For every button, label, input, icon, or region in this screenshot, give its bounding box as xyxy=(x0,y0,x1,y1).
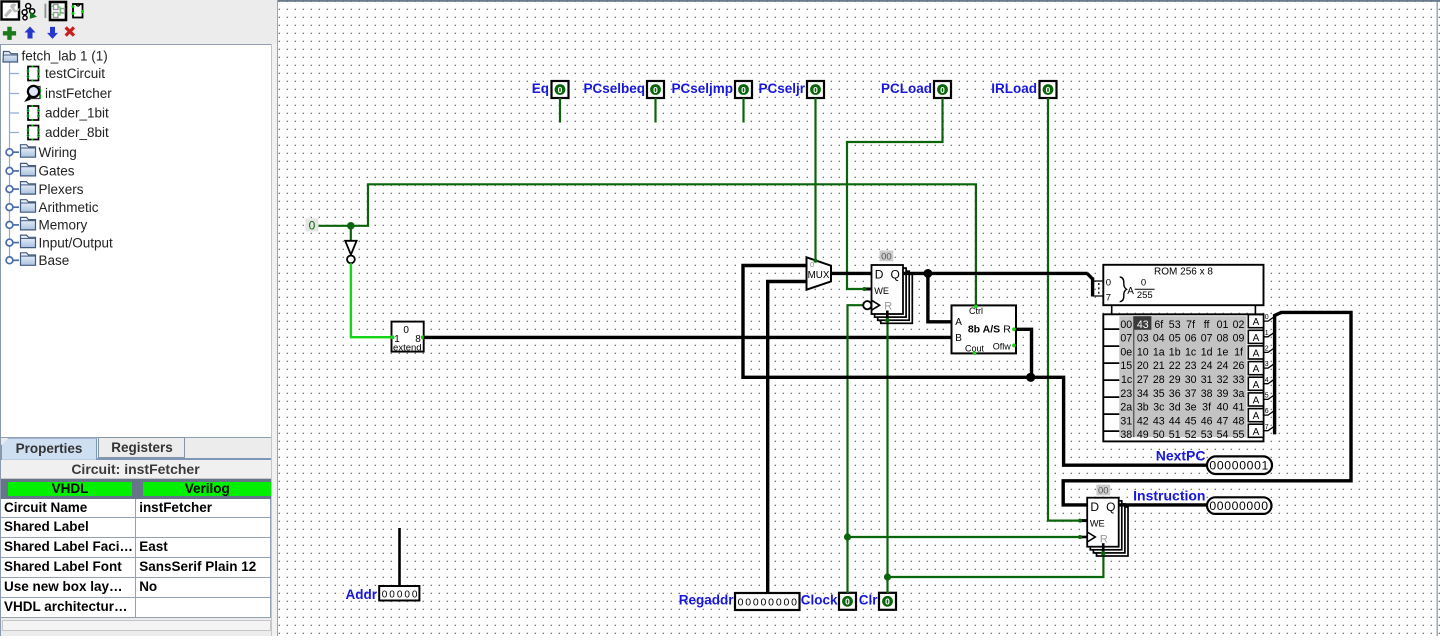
svg-text:1: 1 xyxy=(1265,330,1269,337)
svg-text:0: 0 xyxy=(741,85,746,95)
wire ROM data bus to IR D xyxy=(1063,312,1351,505)
register U3 (PC) xyxy=(862,265,912,323)
svg-text:Instruction: Instruction xyxy=(1133,488,1205,504)
wire PCLoad to register WE xyxy=(847,98,943,289)
svg-text:38: 38 xyxy=(1201,388,1213,400)
svg-text:43: 43 xyxy=(1153,415,1165,427)
svg-text:IRLoad: IRLoad xyxy=(991,81,1037,96)
tool: simulate xyxy=(22,4,37,20)
svg-text:1f: 1f xyxy=(1234,346,1243,358)
constant 0 xyxy=(306,219,319,233)
svg-text:0: 0 xyxy=(404,589,410,600)
wire PCseljmp stub xyxy=(742,98,744,123)
svg-text:PCselbeq: PCselbeq xyxy=(583,81,645,96)
svg-text:A: A xyxy=(1253,411,1260,422)
svg-text:3d: 3d xyxy=(1169,402,1181,414)
svg-text:0: 0 xyxy=(1254,499,1261,513)
root folder xyxy=(3,52,18,63)
ROM U5 256x8 xyxy=(1103,265,1269,442)
svg-text:03: 03 xyxy=(1137,333,1149,345)
svg-text:A: A xyxy=(1253,317,1260,328)
svg-text:6: 6 xyxy=(1265,408,1269,415)
svg-text:Addr: Addr xyxy=(346,587,378,602)
input pin Clock xyxy=(801,593,856,610)
svg-text:0: 0 xyxy=(1141,278,1146,289)
svg-text:WE: WE xyxy=(874,286,889,296)
svg-text:30: 30 xyxy=(1185,374,1197,386)
svg-text:Oflw: Oflw xyxy=(993,342,1012,352)
svg-text:07: 07 xyxy=(1120,333,1132,345)
svg-text:0: 0 xyxy=(738,597,744,609)
svg-text:32: 32 xyxy=(1217,374,1229,386)
svg-text:0e: 0e xyxy=(1120,346,1132,358)
node PC Q junction xyxy=(924,269,933,278)
svg-text:40: 40 xyxy=(1217,402,1229,414)
svg-text:0: 0 xyxy=(791,597,797,609)
svg-text:3: 3 xyxy=(1265,361,1269,368)
svg-text:00: 00 xyxy=(881,252,892,263)
wire NOT output to extender xyxy=(351,263,392,337)
svg-text:0: 0 xyxy=(382,589,388,600)
wire PCselbeq stub xyxy=(654,98,656,123)
svg-text:0: 0 xyxy=(1247,459,1254,473)
svg-text:31: 31 xyxy=(1120,415,1132,427)
svg-text:0: 0 xyxy=(745,597,751,609)
svg-text:PCLoad: PCLoad xyxy=(881,81,932,96)
node Clock junction xyxy=(844,533,851,540)
svg-text:Q: Q xyxy=(890,267,899,281)
input pin IRLoad xyxy=(991,81,1056,98)
svg-text:09: 09 xyxy=(1233,333,1245,345)
node constant junction xyxy=(347,222,355,230)
wire Eq stub xyxy=(559,98,561,123)
svg-text:28: 28 xyxy=(1153,374,1165,386)
svg-text:51: 51 xyxy=(1169,429,1181,441)
svg-text:A: A xyxy=(1253,396,1260,407)
svg-text:A: A xyxy=(955,317,962,328)
svg-text:49: 49 xyxy=(1137,429,1149,441)
svg-text:3a: 3a xyxy=(1233,388,1245,400)
input pin Eq xyxy=(532,81,569,98)
svg-text:0: 0 xyxy=(1232,459,1239,473)
svg-text:A: A xyxy=(1253,333,1260,344)
output pin NextPC xyxy=(1156,448,1272,474)
node adder R junction xyxy=(1026,373,1035,382)
svg-text:36: 36 xyxy=(1169,388,1181,400)
svg-text:0: 0 xyxy=(1246,499,1253,513)
svg-text:0: 0 xyxy=(1224,459,1231,473)
splitter S1 (PC bus to ROM address) xyxy=(1087,273,1103,296)
svg-text:PCseljr: PCseljr xyxy=(758,81,805,96)
svg-text:3b: 3b xyxy=(1137,402,1149,414)
svg-text:extend: extend xyxy=(393,342,422,353)
wire IRLoad to IR WE xyxy=(1048,98,1087,521)
svg-text:3c: 3c xyxy=(1153,402,1165,414)
svg-text:Plexers: Plexers xyxy=(39,182,84,197)
svg-text:Wiring: Wiring xyxy=(39,145,77,160)
svg-text:1c: 1c xyxy=(1121,374,1133,386)
svg-text:0: 0 xyxy=(653,85,658,95)
svg-text:Memory: Memory xyxy=(39,218,88,233)
svg-text:31: 31 xyxy=(1201,374,1213,386)
svg-text:1d: 1d xyxy=(1201,346,1213,358)
input pin Addr xyxy=(346,586,420,602)
wire extender output to adder B xyxy=(424,336,952,339)
svg-text:39: 39 xyxy=(1217,388,1229,400)
svg-text:1a: 1a xyxy=(1153,346,1165,358)
svg-text:0: 0 xyxy=(885,597,890,607)
register U6 (IR) value label xyxy=(1096,485,1110,497)
svg-text:33: 33 xyxy=(1233,374,1245,386)
svg-text:0: 0 xyxy=(558,85,563,95)
svg-text:38: 38 xyxy=(1120,429,1132,441)
svg-text:Clr: Clr xyxy=(859,593,879,608)
svg-text:0: 0 xyxy=(940,85,945,95)
svg-text:26: 26 xyxy=(1233,360,1245,372)
guide lines xyxy=(9,62,11,260)
svg-text:7: 7 xyxy=(1106,292,1111,303)
svg-text:50: 50 xyxy=(1153,429,1165,441)
svg-text:0: 0 xyxy=(1265,314,1269,321)
wire Regaddr to MUX input 1 xyxy=(768,282,807,594)
svg-text:34: 34 xyxy=(1137,388,1149,400)
svg-text:06: 06 xyxy=(1185,333,1197,345)
svg-text:0: 0 xyxy=(1254,459,1261,473)
svg-text:7: 7 xyxy=(1265,424,1269,431)
svg-text:15: 15 xyxy=(1120,360,1132,372)
input pin PCselbeq xyxy=(583,81,664,98)
properties tabs xyxy=(98,437,185,459)
svg-text:0: 0 xyxy=(1239,499,1246,513)
svg-text:A: A xyxy=(1127,286,1134,297)
wire Clock branch to IR clock xyxy=(848,536,1088,538)
svg-text:Input/Output: Input/Output xyxy=(39,235,114,250)
output pin Instruction xyxy=(1133,488,1271,514)
svg-text:0: 0 xyxy=(389,589,395,600)
svg-text:44: 44 xyxy=(1169,415,1181,427)
svg-text:ROM 256 x 8: ROM 256 x 8 xyxy=(1154,267,1213,278)
svg-text:0: 0 xyxy=(1209,459,1216,473)
svg-text:1c: 1c xyxy=(1185,346,1197,358)
svg-text:Clock: Clock xyxy=(801,593,838,608)
svg-text:23: 23 xyxy=(1120,388,1132,400)
wire MUX output to PC register D xyxy=(831,272,872,275)
svg-text:6f: 6f xyxy=(1154,319,1163,331)
svg-text:0: 0 xyxy=(753,597,759,609)
multiplexer MUX1 xyxy=(807,257,832,289)
svg-text:29: 29 xyxy=(1169,374,1181,386)
adder U4 (8b A/S) xyxy=(952,305,1017,356)
input pin Clr xyxy=(859,593,896,610)
svg-text:0: 0 xyxy=(776,597,782,609)
svg-text:1b: 1b xyxy=(1169,346,1181,358)
svg-text:0: 0 xyxy=(309,219,316,233)
svg-text:NextPC: NextPC xyxy=(1156,448,1206,464)
wire Addr stub xyxy=(398,528,401,586)
svg-text:ff: ff xyxy=(1204,319,1210,331)
svg-text:Gates: Gates xyxy=(39,164,75,179)
svg-text:Regaddr: Regaddr xyxy=(679,593,735,608)
register U3 (PC) value label xyxy=(880,251,894,263)
svg-text:0: 0 xyxy=(1046,85,1051,95)
svg-text:24: 24 xyxy=(1201,360,1213,372)
wire PC Q to ROM splitter xyxy=(903,272,1088,275)
svg-text:0: 0 xyxy=(412,589,418,600)
svg-text:47: 47 xyxy=(1217,415,1229,427)
svg-text:05: 05 xyxy=(1169,333,1181,345)
svg-text:8b A/S: 8b A/S xyxy=(968,323,1000,335)
svg-text:54: 54 xyxy=(1217,429,1229,441)
svg-text:2: 2 xyxy=(1265,346,1269,353)
svg-text:D: D xyxy=(875,267,884,281)
svg-text:5: 5 xyxy=(1265,393,1269,400)
svg-text:1e: 1e xyxy=(1217,346,1229,358)
wire Clr net xyxy=(886,318,888,593)
svg-text:1: 1 xyxy=(1262,459,1269,473)
wire adder R to NextPC xyxy=(1016,329,1207,465)
svg-text:0: 0 xyxy=(1232,499,1239,513)
svg-text:0: 0 xyxy=(1106,277,1111,288)
svg-text:Arithmetic: Arithmetic xyxy=(39,200,99,215)
svg-text:MUX: MUX xyxy=(808,270,830,281)
svg-text:0: 0 xyxy=(768,597,774,609)
wire Clr branch to IR reset xyxy=(888,551,1104,577)
svg-text:00: 00 xyxy=(1120,319,1132,331)
svg-text:37: 37 xyxy=(1185,388,1197,400)
svg-text:testCircuit: testCircuit xyxy=(45,66,105,81)
svg-text:fetch_lab 1 (1): fetch_lab 1 (1) xyxy=(22,49,108,64)
svg-text:45: 45 xyxy=(1185,415,1197,427)
wire Q junction to adder A xyxy=(928,273,952,321)
tool: hierarchy (selected box) xyxy=(50,2,66,20)
svg-text:A: A xyxy=(1253,349,1260,360)
wire IR Q to Instruction pin xyxy=(1119,503,1207,506)
splitter S2 (ROM data to bus) xyxy=(1264,312,1282,434)
svg-text:08: 08 xyxy=(1217,333,1229,345)
svg-text:B: B xyxy=(955,333,962,344)
inverter G1 xyxy=(345,241,356,263)
svg-text:22: 22 xyxy=(1169,360,1181,372)
svg-text:A: A xyxy=(1253,364,1260,375)
svg-text:R: R xyxy=(1003,323,1011,335)
svg-text:Eq: Eq xyxy=(532,81,549,96)
svg-text:0: 0 xyxy=(845,597,850,607)
row2: up arrow xyxy=(25,27,36,39)
svg-text:PCseljmp: PCseljmp xyxy=(671,81,733,96)
svg-text:0: 0 xyxy=(1261,499,1268,513)
svg-text:55: 55 xyxy=(1233,429,1245,441)
svg-text:07: 07 xyxy=(1201,333,1213,345)
wire junction to NOT input xyxy=(350,226,352,241)
svg-text:0: 0 xyxy=(761,597,767,609)
svg-text:adder_8bit: adder_8bit xyxy=(45,125,109,140)
svg-text:53: 53 xyxy=(1201,429,1213,441)
svg-text:23: 23 xyxy=(1185,360,1197,372)
svg-text:42: 42 xyxy=(1137,415,1149,427)
svg-text:instFetcher: instFetcher xyxy=(45,86,112,101)
tool: wrench (selected) xyxy=(2,2,20,20)
svg-text:0: 0 xyxy=(397,589,403,600)
svg-text:04: 04 xyxy=(1153,333,1165,345)
svg-text:D: D xyxy=(1090,500,1099,514)
svg-text:53: 53 xyxy=(1169,319,1181,331)
svg-text:48: 48 xyxy=(1233,415,1245,427)
svg-text:0: 0 xyxy=(1209,499,1216,513)
wire Clock net xyxy=(848,305,864,593)
svg-text:00: 00 xyxy=(1098,486,1109,497)
input pin PCLoad xyxy=(881,81,951,98)
svg-text:41: 41 xyxy=(1233,402,1245,414)
svg-text:3e: 3e xyxy=(1185,402,1197,414)
svg-text:2a: 2a xyxy=(1120,402,1132,414)
svg-text:52: 52 xyxy=(1185,429,1197,441)
node Clr junction xyxy=(884,573,891,580)
svg-text:35: 35 xyxy=(1153,388,1165,400)
input pin Regaddr xyxy=(679,593,800,610)
svg-text:02: 02 xyxy=(1233,319,1245,331)
svg-text:0: 0 xyxy=(783,597,789,609)
svg-text:43: 43 xyxy=(1137,319,1149,331)
svg-text:20: 20 xyxy=(1137,360,1149,372)
svg-text:adder_1bit: adder_1bit xyxy=(45,106,109,121)
bit extender U2 xyxy=(391,322,425,354)
input pin PCseljmp xyxy=(671,81,752,98)
tool: chip xyxy=(72,4,85,18)
svg-text:A: A xyxy=(1253,380,1260,391)
explorer tree xyxy=(0,44,271,438)
svg-text:46: 46 xyxy=(1201,415,1213,427)
svg-text:Q: Q xyxy=(1106,500,1115,514)
svg-text:0: 0 xyxy=(403,325,409,336)
wire feedback to MUX input 0 xyxy=(743,266,1031,378)
svg-text:255: 255 xyxy=(1137,290,1153,301)
register U6 (IR) xyxy=(1078,498,1128,556)
svg-text:3f: 3f xyxy=(1202,402,1211,414)
svg-text:0: 0 xyxy=(1217,499,1224,513)
row2: down arrow xyxy=(47,27,58,39)
wire PC reset from Clr xyxy=(885,318,890,323)
svg-text:10: 10 xyxy=(1137,346,1149,358)
input pin PCseljr xyxy=(758,81,824,98)
svg-text:0: 0 xyxy=(1224,499,1231,513)
svg-text:01: 01 xyxy=(1217,319,1229,331)
svg-text:0: 0 xyxy=(813,85,818,95)
svg-text:Base: Base xyxy=(39,253,70,268)
svg-text:A: A xyxy=(1253,427,1260,438)
svg-text:0: 0 xyxy=(1217,459,1224,473)
row2: delete X xyxy=(65,26,76,37)
wire constant to NOT and Ctrl xyxy=(319,184,976,305)
svg-text:WE: WE xyxy=(1090,519,1105,529)
svg-text:4: 4 xyxy=(1265,377,1269,384)
svg-text:21: 21 xyxy=(1153,360,1165,372)
svg-text:24: 24 xyxy=(1217,360,1229,372)
scroll tracks xyxy=(2,620,271,631)
toolbar xyxy=(0,0,278,44)
svg-text:27: 27 xyxy=(1137,374,1149,386)
svg-text:0: 0 xyxy=(1239,459,1246,473)
wire PCseljr to MUX select xyxy=(814,98,816,261)
row2: add xyxy=(3,27,16,40)
svg-text:7f: 7f xyxy=(1186,319,1195,331)
